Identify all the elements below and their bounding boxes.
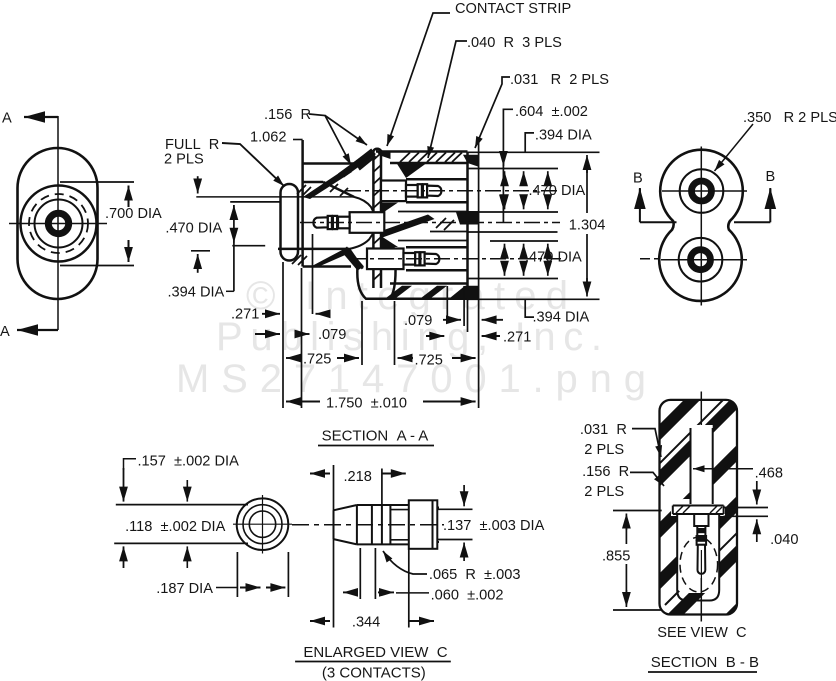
right face bbox=[466, 152, 469, 299]
svg-text:.218: .218 bbox=[344, 469, 372, 485]
bottom ring bbox=[679, 238, 723, 282]
hatch ticks mouth slope bbox=[330, 184, 338, 192]
svg-text:SECTION A - A: SECTION A - A bbox=[322, 428, 429, 445]
mouth top edge line bbox=[196, 196, 354, 198]
svg-text:.157 ±.002 DIA: .157 ±.002 DIA bbox=[138, 454, 240, 470]
crosshair top horizontal bbox=[662, 190, 747, 192]
mouth upper wall bbox=[303, 181, 324, 184]
svg-text:.271: .271 bbox=[231, 307, 259, 323]
hatch ticks mid-right bbox=[436, 218, 446, 228]
section arrow A top bbox=[24, 116, 58, 118]
inner ledge top bbox=[390, 162, 468, 165]
svg-text:.855: .855 bbox=[602, 549, 630, 565]
dim .700 extension lines bbox=[60, 181, 134, 183]
black donut bbox=[48, 213, 68, 233]
svg-text:.060 ±.002: .060 ±.002 bbox=[431, 588, 504, 604]
svg-text:1.750 ±.010: 1.750 ±.010 bbox=[326, 396, 407, 412]
feature verticals bbox=[356, 505, 358, 544]
outer top edge right bbox=[376, 150, 468, 153]
channel walls bbox=[690, 428, 692, 504]
svg-text:.040: .040 bbox=[770, 532, 798, 548]
pin side view (enlarged) bbox=[334, 500, 440, 549]
leader .350 R bbox=[715, 124, 754, 171]
ext verticals bbox=[282, 262, 284, 408]
svg-text:B: B bbox=[633, 171, 643, 187]
leaders .156 R bbox=[309, 114, 351, 165]
ext mid step bbox=[468, 231, 558, 233]
black band bottom funnel wall (left of strip) bbox=[341, 247, 364, 271]
mounting flange (FULL R 2 PLS) bbox=[281, 184, 299, 261]
black slab mid upper (right of strip) bbox=[381, 215, 435, 239]
bottom hatch band 2 bbox=[420, 286, 447, 299]
svg-text:.137 ±.003 DIA: .137 ±.003 DIA bbox=[443, 518, 545, 534]
svg-text:B: B bbox=[766, 169, 776, 185]
ext top edge bbox=[468, 151, 600, 153]
svg-text:.344: .344 bbox=[352, 615, 380, 631]
bottom lobe bbox=[357, 267, 395, 299]
black Z bottom left block bbox=[311, 249, 352, 267]
svg-text:2 PLS: 2 PLS bbox=[584, 484, 624, 500]
svg-text:.394 DIA: .394 DIA bbox=[533, 310, 590, 326]
svg-text:MS27147001.png: MS27147001.png bbox=[176, 357, 646, 401]
top donut bbox=[692, 181, 712, 201]
svg-text:.394 DIA: .394 DIA bbox=[535, 128, 592, 144]
centerline B-B vertical bbox=[700, 392, 702, 426]
dim .137 bbox=[437, 508, 472, 510]
hatch ticks wing bbox=[356, 160, 362, 166]
hatch ticks left wall lower bbox=[292, 255, 301, 264]
dashed ellipse around pin bbox=[680, 537, 718, 592]
inner ledge bottom bbox=[390, 282, 468, 285]
svg-text:2 PLS: 2 PLS bbox=[164, 152, 204, 168]
long vertical extension x=478.6 bbox=[478, 140, 480, 408]
top recess walls bbox=[406, 178, 468, 181]
leader .031 bbox=[475, 77, 510, 148]
top ring bbox=[680, 169, 724, 213]
white cavity bbox=[677, 499, 719, 593]
svg-text:.156 R: .156 R bbox=[264, 107, 311, 123]
top edge left block bbox=[303, 162, 354, 165]
svg-text:.079: .079 bbox=[404, 313, 432, 329]
black chamfer mid-right bbox=[456, 211, 479, 225]
contact strip section (flange) bbox=[673, 505, 724, 507]
strip top junction blob bbox=[376, 150, 391, 159]
svg-text:.470 DIA: .470 DIA bbox=[165, 221, 222, 237]
svg-text:1.304: 1.304 bbox=[569, 218, 606, 234]
svg-text:.031 R: .031 R bbox=[580, 422, 627, 438]
leader contact strip bbox=[387, 13, 450, 146]
leader .156 B-B bbox=[630, 472, 664, 486]
svg-text:.118 ±.002 DIA: .118 ±.002 DIA bbox=[125, 519, 225, 535]
cavity walls bbox=[677, 514, 719, 601]
dim .700 arrows bbox=[128, 186, 130, 208]
watermark bbox=[176, 274, 646, 401]
arrows .470 top (3 columns) bbox=[505, 171, 548, 209]
bracket .394 top bbox=[525, 133, 534, 152]
black band bridge (streak to wing) bbox=[338, 156, 368, 178]
hatch + black shading, section A-A bbox=[303, 150, 479, 299]
centerline vertical bbox=[57, 116, 59, 330]
svg-text:.031 R 2 PLS: .031 R 2 PLS bbox=[510, 72, 609, 88]
bottom hatch band 1 bbox=[385, 286, 412, 299]
crosshair bottom horizontal bbox=[661, 259, 747, 261]
left wing to strip bbox=[354, 150, 372, 164]
white groove for strip bbox=[671, 504, 725, 517]
contact end view circles bbox=[237, 498, 289, 550]
taper top/bottom bbox=[334, 505, 357, 510]
arrows .470 bottom bbox=[505, 244, 548, 276]
svg-text:.156 R: .156 R bbox=[582, 464, 629, 480]
svg-text:A: A bbox=[0, 324, 10, 340]
black wedge above bottom contact at strip bbox=[381, 236, 398, 247]
collar bbox=[409, 500, 438, 549]
leader + dim .604 bbox=[503, 109, 513, 222]
svg-text:.350 R 2 PLS: .350 R 2 PLS bbox=[743, 110, 836, 126]
circle .700 bbox=[21, 186, 97, 262]
middle contact (left-pointing) bbox=[313, 212, 384, 233]
flange hatch ticks bbox=[676, 506, 722, 513]
mid step edge bbox=[430, 231, 468, 233]
pin in section B-B (pointing down) bbox=[694, 514, 708, 578]
svg-text:.187 DIA: .187 DIA bbox=[156, 581, 213, 597]
dim 1.304 bbox=[586, 155, 588, 173]
throat fillet top bbox=[354, 197, 373, 212]
black streak left top block bbox=[303, 169, 352, 199]
section arrow A bottom bbox=[17, 329, 58, 331]
vertical centerline bbox=[700, 147, 702, 306]
tick 1.062 bbox=[293, 139, 303, 141]
throat fillet bottom bbox=[349, 233, 373, 249]
cylinder top/bottom bbox=[357, 504, 409, 506]
hatch ticks top band bbox=[400, 153, 410, 163]
leader .031 B-B bbox=[632, 429, 661, 457]
leader FULL R bbox=[222, 143, 284, 186]
top contact (right-pointing) bbox=[381, 181, 441, 202]
crosshair horizontal bbox=[9, 223, 107, 225]
dim .118 lines bbox=[116, 504, 248, 506]
svg-text:.468: .468 bbox=[755, 466, 783, 482]
B arrow left bbox=[640, 189, 677, 222]
bottom edge left block bbox=[303, 265, 351, 268]
svg-text:.604 ±.002: .604 ±.002 bbox=[515, 104, 588, 120]
body left face / 1.062 line bbox=[301, 140, 304, 267]
dashed circle bbox=[29, 194, 88, 253]
svg-text:1.062: 1.062 bbox=[250, 130, 287, 146]
svg-text:2 PLS: 2 PLS bbox=[584, 442, 624, 458]
svg-text:(3 CONTACTS): (3 CONTACTS) bbox=[322, 665, 426, 681]
ext .470 bottom bbox=[490, 240, 558, 242]
crosshair bbox=[233, 523, 292, 525]
svg-text:.700 DIA: .700 DIA bbox=[105, 206, 162, 222]
white channel (contact hole) bbox=[691, 425, 713, 507]
svg-text:.040 R 3 PLS: .040 R 3 PLS bbox=[467, 35, 562, 51]
svg-text:SEE VIEW C: SEE VIEW C bbox=[657, 625, 746, 641]
svg-text:.271: .271 bbox=[503, 330, 531, 346]
ext bottom edge bbox=[468, 298, 600, 300]
svg-text:.065 R ±.003: .065 R ±.003 bbox=[429, 567, 521, 583]
contact strip bbox=[372, 150, 375, 288]
hatch ticks strip bbox=[373, 153, 381, 160]
B arrow right bbox=[734, 189, 770, 222]
ext .470 top bbox=[468, 168, 559, 170]
obround outline bbox=[18, 148, 98, 299]
wing black band bbox=[353, 150, 376, 169]
black slab mid lower (right of strip) bbox=[381, 239, 406, 260]
bottom donut bbox=[691, 250, 711, 270]
outline double circle union bbox=[659, 150, 743, 301]
svg-text:ENLARGED VIEW C: ENLARGED VIEW C bbox=[303, 644, 447, 661]
svg-text:.725: .725 bbox=[415, 353, 443, 369]
svg-text:SECTION B - B: SECTION B - B bbox=[651, 654, 759, 671]
body outline bbox=[660, 400, 738, 615]
black wedge below top contact at strip bbox=[381, 203, 398, 215]
bottom right black chunk bbox=[449, 286, 479, 299]
inner circle bbox=[35, 200, 83, 248]
svg-text:A: A bbox=[2, 111, 12, 127]
black triangle recess mouth top bbox=[397, 164, 426, 179]
svg-text:.079: .079 bbox=[318, 327, 346, 343]
centerlines of contacts bbox=[300, 191, 658, 259]
centerline to pin bbox=[292, 524, 444, 526]
svg-text:.394 DIA: .394 DIA bbox=[168, 285, 225, 301]
svg-text:CONTACT STRIP: CONTACT STRIP bbox=[455, 1, 571, 17]
svg-text:.470 DIA: .470 DIA bbox=[529, 183, 586, 199]
bottom mouth lower edge bbox=[278, 248, 349, 251]
black chamfer top-right corner bbox=[463, 155, 479, 167]
hatch ticks left wall upper bbox=[297, 185, 306, 194]
svg-text:.725: .725 bbox=[303, 352, 331, 368]
hatched body bbox=[630, 367, 806, 681]
bottom contact (right-pointing) bbox=[367, 249, 439, 270]
tip face bbox=[333, 510, 335, 539]
right stub bbox=[437, 507, 439, 509]
leader .040 bbox=[428, 41, 467, 158]
svg-text:.470 DIA: .470 DIA bbox=[525, 250, 582, 266]
bottom edge right bbox=[366, 298, 468, 301]
bottom recess walls bbox=[406, 246, 468, 249]
